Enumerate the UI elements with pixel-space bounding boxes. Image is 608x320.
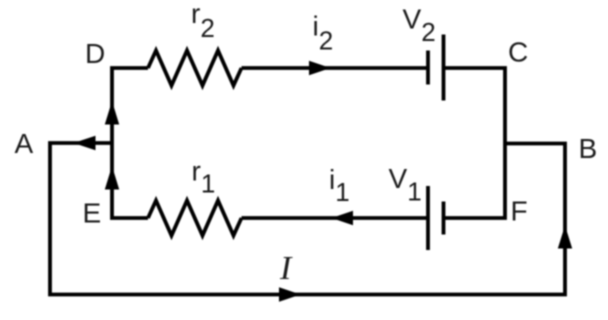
arrow I right xyxy=(279,287,301,301)
arrow i2 right xyxy=(309,61,331,75)
svg-text:i1: i1 xyxy=(329,164,350,207)
svg-text:V2: V2 xyxy=(403,3,436,47)
svg-text:r2: r2 xyxy=(191,0,215,43)
svg-text:C: C xyxy=(508,37,528,68)
wire left vertical D-E with stubs xyxy=(112,68,148,218)
svg-text:i2: i2 xyxy=(313,11,334,56)
battery V1 short plate xyxy=(442,202,446,235)
svg-text:A: A xyxy=(15,128,34,159)
arrow left-wire upper up xyxy=(105,101,119,125)
wire top branch to battery V2 xyxy=(242,66,429,70)
battery V2 short plate xyxy=(426,51,430,85)
wire outer loop A-bottom-B xyxy=(50,143,565,295)
arrow left-wire lower up xyxy=(105,166,119,190)
battery V2 long plate xyxy=(442,35,446,101)
svg-text:E: E xyxy=(83,198,102,229)
battery V1 long plate xyxy=(426,186,430,250)
svg-text:F: F xyxy=(511,196,528,227)
resistor r2 xyxy=(148,51,242,86)
svg-text:r1: r1 xyxy=(192,156,216,199)
svg-text:I: I xyxy=(279,250,293,287)
wire battery V2 to C and down to F xyxy=(444,68,506,218)
arrow right-wire up xyxy=(558,226,572,249)
svg-text:V1: V1 xyxy=(389,163,422,207)
svg-text:B: B xyxy=(579,133,598,164)
svg-text:D: D xyxy=(85,38,105,69)
arrow i1 left xyxy=(332,211,354,225)
resistor r1 xyxy=(148,201,242,236)
arrow A-stub left xyxy=(74,136,96,150)
wire middle branch E to battery V1 xyxy=(242,216,429,220)
